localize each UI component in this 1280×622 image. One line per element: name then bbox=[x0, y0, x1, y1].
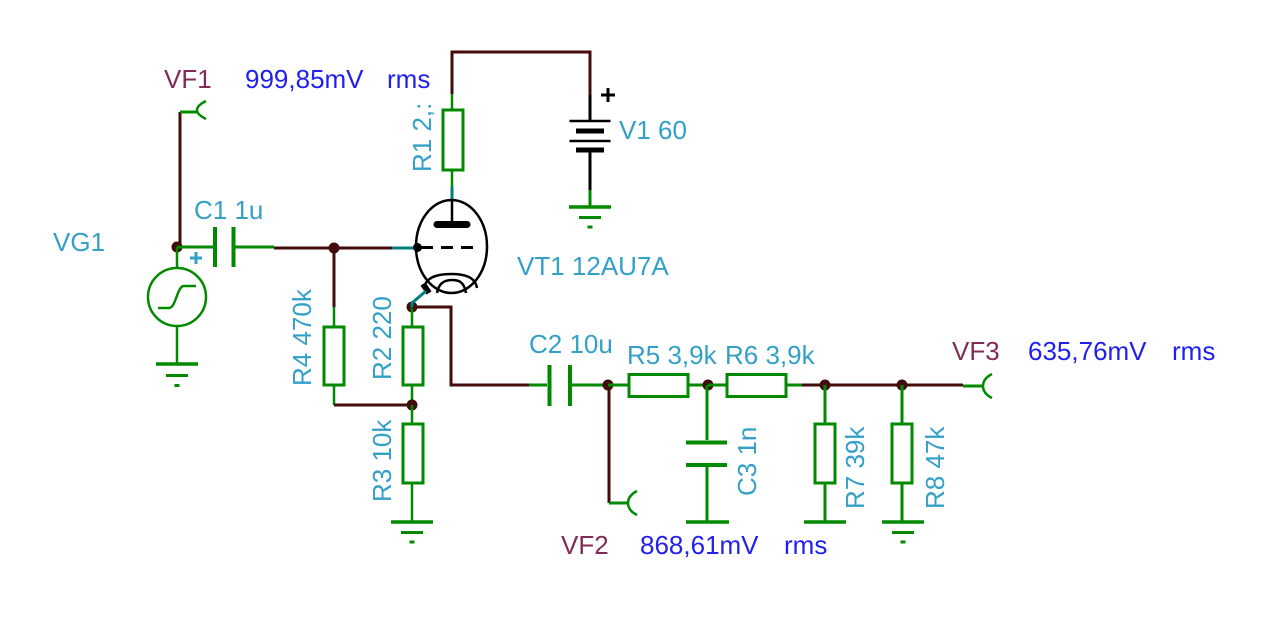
resistor R6 bbox=[708, 375, 802, 397]
svg-text:C2 10u: C2 10u bbox=[529, 329, 613, 359]
node E (C2/R5/VF2 junction) bbox=[603, 380, 614, 391]
node D (cathode/R2 junction) bbox=[407, 302, 418, 313]
svg-text:R8 47k: R8 47k bbox=[920, 426, 950, 509]
svg-text:VT1 12AU7A: VT1 12AU7A bbox=[517, 251, 669, 281]
svg-text:rms: rms bbox=[784, 530, 827, 560]
svg-text:999,85mV: 999,85mV bbox=[245, 64, 364, 94]
resistor R7 bbox=[815, 385, 835, 521]
ground R7 bbox=[804, 520, 846, 524]
probe tip VF1 bbox=[197, 101, 206, 119]
ground R8 bbox=[882, 522, 924, 542]
svg-text:R7 39k: R7 39k bbox=[840, 426, 870, 509]
probe tip VF3 bbox=[983, 374, 992, 398]
svg-text:868,61mV: 868,61mV bbox=[640, 530, 759, 560]
svg-text:V1 60: V1 60 bbox=[619, 115, 687, 145]
svg-text:rms: rms bbox=[1172, 336, 1215, 366]
plus sign VG1 bbox=[190, 252, 202, 264]
node F (R5/R6/C3 junction) bbox=[703, 380, 714, 391]
svg-text:635,76mV: 635,76mV bbox=[1028, 336, 1147, 366]
svg-text:VF1: VF1 bbox=[164, 64, 212, 94]
node H (R8 junction) bbox=[897, 380, 908, 391]
svg-text:R1 2,:: R1 2,: bbox=[407, 103, 437, 172]
resistor R3 bbox=[403, 405, 423, 521]
wire grid teal segment bbox=[392, 247, 414, 250]
svg-text:C3 1n: C3 1n bbox=[732, 427, 762, 496]
plus sign V1 bbox=[601, 88, 615, 102]
resistor R2 bbox=[403, 307, 423, 405]
wire C1 to grid node bbox=[274, 247, 392, 250]
value 868,61mV rms bbox=[640, 530, 827, 560]
node B (C1/R4/grid junction) bbox=[329, 243, 340, 254]
resistor R1 bbox=[443, 94, 463, 187]
capacitor C1 bbox=[177, 227, 274, 267]
svg-text:R3 10k: R3 10k bbox=[367, 419, 397, 502]
node C (R4/R2/R3 junction) bbox=[407, 400, 418, 411]
svg-text:R6 3,9k: R6 3,9k bbox=[725, 340, 816, 370]
svg-text:R4 470k: R4 470k bbox=[287, 288, 317, 386]
value 635,76mV rms bbox=[1028, 336, 1215, 366]
wire cathode node to C2 bbox=[412, 307, 529, 385]
ground V1 bbox=[569, 207, 611, 227]
resistor R4 bbox=[324, 307, 344, 405]
node G (R7 junction) bbox=[820, 380, 831, 391]
capacitor C3 bbox=[686, 385, 727, 521]
resistor R8 bbox=[892, 385, 912, 521]
source VG1 bbox=[148, 247, 206, 364]
probe tip VF2 bbox=[628, 491, 637, 515]
svg-text:C1 1u: C1 1u bbox=[194, 195, 263, 225]
wire VF1 vertical to input node bbox=[180, 112, 197, 247]
node A (VG1/C1/VF1 junction) bbox=[172, 242, 183, 253]
wire node B down to R4 bbox=[333, 248, 336, 307]
tube VT1 envelope bbox=[416, 200, 487, 293]
tube VT1 grid bbox=[421, 246, 477, 249]
svg-text:R2 220: R2 220 bbox=[367, 296, 397, 380]
svg-text:R5 3,9k: R5 3,9k bbox=[627, 340, 718, 370]
tube VT1 grid pin bbox=[413, 243, 422, 252]
resistor R5 bbox=[608, 375, 707, 397]
ground C3 bbox=[686, 520, 729, 524]
svg-text:VG1: VG1 bbox=[53, 227, 105, 257]
wire anode top rail bbox=[452, 52, 590, 95]
wire R4 bottom to node C bbox=[334, 404, 412, 407]
svg-text:rms: rms bbox=[387, 64, 430, 94]
ground R3 bbox=[391, 522, 433, 542]
value 999,85mV rms bbox=[245, 64, 430, 94]
svg-text:VF3: VF3 bbox=[952, 336, 1000, 366]
wire cathode teal bbox=[412, 291, 426, 307]
wire probe VF3 stub bbox=[963, 385, 983, 388]
wire output rail bbox=[802, 384, 963, 387]
tube VT1 anode bbox=[437, 200, 467, 225]
svg-text:VF2: VF2 bbox=[561, 530, 609, 560]
capacitor C2 bbox=[529, 365, 607, 406]
battery V1 bbox=[570, 95, 611, 207]
ground VG1 bbox=[156, 364, 198, 386]
wire teal anode segment bbox=[451, 187, 454, 200]
tube VT1 cathode bbox=[423, 274, 477, 293]
wire VF2 drop bbox=[609, 385, 628, 503]
